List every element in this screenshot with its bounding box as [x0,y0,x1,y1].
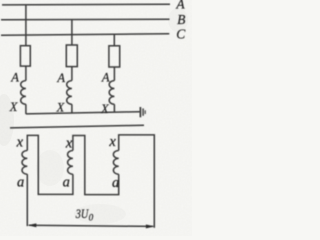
svg-text:A: A [101,70,110,84]
svg-text:3U: 3U [75,206,90,221]
svg-text:X: X [100,102,110,116]
svg-text:x: x [16,134,24,150]
svg-text:x: x [65,136,73,152]
svg-text:X: X [56,100,66,114]
svg-text:A: A [175,0,185,12]
svg-text:x: x [108,134,116,150]
svg-text:B: B [177,12,185,27]
svg-text:X: X [9,100,19,114]
svg-text:A: A [56,71,65,85]
svg-text:0: 0 [89,212,94,222]
svg-text:C: C [176,26,186,41]
svg-text:a: a [112,175,119,191]
svg-text:a: a [63,175,70,191]
svg-text:a: a [17,175,24,191]
svg-text:A: A [10,71,19,85]
